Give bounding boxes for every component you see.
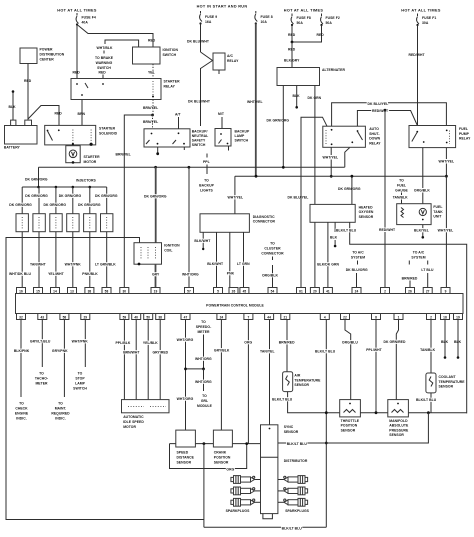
svg-text:BLK: BLK [441,340,449,344]
wire pin8 PPL/WHT to ground link [375,320,377,413]
pin 9 (top) [441,288,450,294]
svg-text:GRY/LT BLU: GRY/LT BLU [30,340,51,344]
node merge dot [291,41,294,44]
svg-text:9: 9 [445,289,447,293]
svg-text:BLK/LT BLU: BLK/LT BLU [272,398,293,402]
wire pin38 GRY/RED to AIS [159,320,161,400]
pin 58 (bottom) [60,314,69,320]
svg-text:BLK/WHT: BLK/WHT [194,239,211,243]
svg-text:8: 8 [375,315,377,319]
pin 50 (bottom) [144,314,153,320]
svg-text:38: 38 [88,289,92,293]
svg-text:44: 44 [267,315,271,319]
svg-text:DISTANCE: DISTANCE [177,456,195,460]
wire fuse 8 WHT/YEL thick down to bus2 [255,24,257,177]
node bus dots [203,442,206,445]
wire fuse F4 down to starter relay (RED) [76,25,78,79]
svg-text:38: 38 [158,315,162,319]
svg-text:58: 58 [105,289,109,293]
wire pin44 TAN/YEL to sync sensor [269,320,271,425]
power distribution center [20,48,37,64]
svg-text:THROTTLE: THROTTLE [341,419,360,423]
svg-text:26: 26 [232,289,236,293]
svg-text:BLK/WHT: BLK/WHT [207,262,224,266]
svg-text:DK BLU/WHT: DK BLU/WHT [187,40,210,44]
PCM powertrain control module [16,294,464,314]
wire TPS to MAP ground link [360,412,387,414]
fuse F2 50A [320,14,339,27]
svg-text:RED/WHT: RED/WHT [409,53,426,57]
pin 38 (bottom) [156,314,165,320]
injector feed wires [21,187,23,214]
svg-text:WHT/ORG: WHT/ORG [195,357,212,361]
svg-text:DK GRN/ORG: DK GRN/ORG [267,118,290,122]
wire fuse F1 RED/WHT down to fuel pump relay [417,25,419,126]
svg-text:43: 43 [40,315,44,319]
fuel pump relay interior [416,131,418,133]
pin 13 (top) [68,288,77,294]
svg-text:SENSOR: SENSOR [359,215,374,219]
wire diag BLK/WHT ground stub [202,232,204,248]
svg-text:19: 19 [456,315,460,319]
svg-text:DIAGNOSTIC: DIAGNOSTIC [253,215,275,219]
svg-text:15: 15 [36,289,40,293]
ASD relay interior [331,129,333,131]
svg-text:ORG/BLU: ORG/BLU [342,341,358,345]
starter solenoid [45,125,96,144]
svg-text:ALTERNATER: ALTERNATER [322,68,345,72]
svg-text:24: 24 [220,315,224,319]
pin 2 (top) [381,288,390,294]
svg-text:BLK/GRY: BLK/GRY [284,58,300,62]
svg-text:DK BLU/YEL: DK BLU/YEL [368,102,389,106]
svg-text:TO A/C: TO A/C [352,251,364,255]
svg-text:BLK/PNK: BLK/PNK [14,349,30,353]
svg-text:SENSOR: SENSOR [284,430,299,434]
pin 45 (top) [240,288,249,294]
svg-text:FUSE F2: FUSE F2 [326,16,340,20]
battery [5,126,38,145]
svg-text:GRY/PNK: GRY/PNK [52,349,68,353]
svg-text:TO: TO [58,402,63,406]
injector 4 [67,214,79,232]
pin 1 (bottom) [394,314,403,320]
svg-text:BLK/LT BLU: BLK/LT BLU [336,229,357,233]
svg-text:4: 4 [324,315,326,319]
svg-text:DK GRN/ORG: DK GRN/ORG [9,203,32,207]
pin 8 (bottom) [372,314,381,320]
pin 14 (top) [51,288,60,294]
svg-text:2: 2 [384,289,386,293]
svg-text:50A: 50A [326,21,333,25]
svg-text:BRN/RED: BRN/RED [279,341,295,345]
fuse F1 30A [416,14,436,27]
starter motor [66,146,80,163]
svg-text:RELAY: RELAY [227,59,239,63]
svg-text:30A: 30A [422,21,429,25]
svg-text:FUEL: FUEL [397,184,406,188]
svg-text:SYSTEM: SYSTEM [411,256,425,260]
svg-text:1: 1 [398,315,400,319]
pin 54 (top) [268,288,277,294]
wire diag BLK/WHT to PCM pin 5 [216,232,218,287]
solenoid contacts [47,130,49,132]
svg-text:DISTRIBUTOR: DISTRIBUTOR [284,459,308,463]
wire safety switch right stub [183,147,185,150]
svg-text:BLK/DK GRN: BLK/DK GRN [317,263,339,267]
pin 16 (top) [17,288,26,294]
wire pin43 GRY/LT BLU to tachometer [41,320,43,368]
svg-text:SWITCH: SWITCH [73,387,87,391]
svg-text:SYNC: SYNC [284,425,294,429]
svg-text:FUSE F8: FUSE F8 [297,16,311,20]
svg-text:CLUSTER: CLUSTER [264,247,281,251]
svg-text:PPL/WHT: PPL/WHT [366,348,382,352]
wire fuel pump relay WHT/YEL output to bus2 [445,148,447,177]
pin 41 (top) [323,288,332,294]
injector output wires to PCM pins [21,232,23,288]
svg-text:18: 18 [443,315,447,319]
svg-text:TO: TO [270,242,275,246]
wire distributor ground U [263,514,273,519]
svg-text:16A: 16A [205,20,212,24]
svg-text:10A: 10A [261,20,268,24]
svg-text:CONNECTOR: CONNECTOR [261,252,284,256]
wire BLK battery ground [12,92,14,120]
svg-text:MODULE: MODULE [197,404,213,408]
svg-text:NEUTRAL: NEUTRAL [192,134,209,138]
injector bus [22,186,107,188]
pin 44 (bottom) [265,314,274,320]
svg-text:TO BRAKE: TO BRAKE [95,56,114,60]
wire fuel gauge stub [401,200,403,204]
svg-text:A/T: A/T [175,113,181,117]
wire pin29 WHT/PNK to stop lamp switch [84,320,86,368]
auto shut-down relay [323,126,366,147]
node bus1 dots [154,166,157,169]
svg-text:27: 27 [426,289,430,293]
svg-text:OXYGEN: OXYGEN [359,210,374,214]
svg-text:AUTOMATIC: AUTOMATIC [123,415,144,419]
svg-text:STARTER: STARTER [99,127,116,131]
injector 3 [50,214,62,232]
wire fuse 9 down (DK BLU/WHT) [200,24,202,53]
starter relay contacts [76,83,78,85]
pin 29 (bottom) [81,314,90,320]
ORG sensor supply loop [170,444,247,469]
svg-text:BACKUP/: BACKUP/ [192,130,208,134]
wire pin2 TAN/BLK to coolant sensor [430,320,432,374]
svg-text:RELAY: RELAY [459,137,471,141]
svg-text:22: 22 [343,315,347,319]
crank position sensor [213,430,232,447]
wire DK BLU/YEL ASD to fuel pump relay [332,103,447,126]
svg-text:ABSOLUTE: ABSOLUTE [389,424,409,428]
wire pin40 BRN/WHT to AIS [135,320,137,400]
switch contacts [220,133,222,135]
wire fuse F2 down RED [292,25,322,42]
pin 43 (bottom) [38,314,47,320]
svg-text:54: 54 [271,289,275,293]
injector 1 [16,214,28,232]
svg-text:SWITCH: SWITCH [235,139,249,143]
wire sync sensor BLK/LT BLU to ground trunk [278,442,326,444]
svg-text:16: 16 [19,289,23,293]
wire HO2S BLK ground stub [334,222,336,232]
wire PPL down [206,165,208,175]
wire ignition switch to brake warning tap [105,40,139,47]
svg-text:47: 47 [184,315,188,319]
svg-text:WHT/PNK: WHT/PNK [72,340,89,344]
svg-text:TO: TO [201,320,206,324]
backup lamp switch [215,129,231,147]
svg-text:DK GRN/ORG: DK GRN/ORG [338,187,361,191]
svg-text:SPEEDO-: SPEEDO- [196,325,212,329]
pin 61 (top) [297,288,306,294]
svg-text:FUEL: FUEL [459,127,468,131]
svg-text:57: 57 [187,289,191,293]
svg-text:TO: TO [202,394,207,398]
svg-text:POWER: POWER [40,48,54,52]
svg-text:WHT/ORG: WHT/ORG [182,273,199,277]
coil interior winding dashes [141,247,156,259]
svg-text:IGNITION: IGNITION [163,48,179,52]
svg-text:PUMP: PUMP [459,132,470,136]
svg-text:DK GRN/ORG: DK GRN/ORG [44,203,67,207]
svg-text:LIGHTS: LIGHTS [200,189,213,193]
wire pin47 WHT/ORG to speed sensor [185,320,187,431]
svg-text:SENSOR: SENSOR [439,385,454,389]
pin 4 (bottom) [320,314,329,320]
svg-text:FUSE F1: FUSE F1 [422,16,436,20]
svg-text:DK GRN/ORG: DK GRN/ORG [144,194,167,198]
svg-text:19: 19 [154,289,158,293]
svg-text:FUEL: FUEL [433,205,442,209]
fuse F8 50A [291,14,311,27]
svg-text:MAINT.: MAINT. [55,407,67,411]
wire A/T stub [178,117,180,129]
node bus2 fuse8 dot [255,175,258,178]
svg-text:BACKUP: BACKUP [235,130,250,134]
svg-text:RED: RED [73,71,81,75]
svg-text:LT GRN/BLK: LT GRN/BLK [95,263,116,267]
svg-text:ORG: ORG [244,341,252,345]
svg-text:BRN: BRN [78,112,86,116]
wire diag PNK to PCM pin 26 [229,232,231,287]
injector 6 [101,214,113,232]
wire A/C relay output stub [218,70,220,74]
svg-text:BRN/RED: BRN/RED [402,276,418,280]
wire fuel pump relay ORG/BLK to fuel tank [422,148,424,204]
node bus2 right end dot [445,175,448,178]
svg-text:SAFETY: SAFETY [192,139,206,143]
svg-text:REQUIRED: REQUIRED [51,412,70,416]
svg-text:INDIC.: INDIC. [55,417,65,421]
wire BRN/YEL dashed to neutral safety switch [152,115,154,129]
wire safety switch stub with dot [157,147,159,153]
svg-text:METER: METER [197,330,210,334]
svg-text:WHT/YEL: WHT/YEL [247,100,263,104]
svg-text:BLK/LT BLU: BLK/LT BLU [315,349,336,353]
svg-text:BATTERY: BATTERY [4,146,21,150]
spark plugs left [231,476,255,507]
wire fuse F4 to ignition switch (RED) [77,25,153,48]
svg-text:INDIC.: INDIC. [16,417,26,421]
svg-text:SPEED: SPEED [177,451,189,455]
svg-text:PNK/BLK: PNK/BLK [82,272,98,276]
node WHT/YEL bus2 dot [330,175,333,178]
fuse 8 10A [255,11,273,25]
pin 24 (bottom) [217,314,226,320]
fuel tank unit [397,204,431,225]
svg-text:5: 5 [217,289,219,293]
pin 24 (top) [352,288,361,294]
svg-text:CONNECTOR: CONNECTOR [253,220,276,224]
svg-text:29: 29 [83,315,87,319]
injector interior dashes [22,217,107,229]
svg-text:SENSOR: SENSOR [294,383,309,387]
spark plugs right [284,476,308,484]
air temperature sensor [283,372,293,392]
pin 57 (top) [185,288,194,294]
wire pin18 BLK stub [444,320,446,357]
wire RED/WHT ASD to fuel pump relay [357,111,417,127]
fuse 9 16A [199,11,217,25]
node junction BRN/YEL [151,114,154,117]
wire pin58 GRY/PNK to maint indicator [63,320,65,398]
svg-text:HOT AT ALL TIMES: HOT AT ALL TIMES [57,9,97,13]
wire WHT/YEL bus2 to PCM pin 9 [445,176,447,287]
svg-text:WHT/DK BLU: WHT/DK BLU [9,272,31,276]
wire pin59 PPL/BLK to AIS [123,320,125,400]
pin 19 (bottom) [454,314,463,320]
svg-text:AUTO: AUTO [369,127,379,131]
svg-text:50A: 50A [297,21,304,25]
pin 21 (bottom) [281,314,290,320]
svg-text:RED: RED [99,71,107,75]
svg-text:LAMP: LAMP [235,134,245,138]
svg-text:20: 20 [313,289,317,293]
bus2 WHT/YEL horizontal [235,175,447,177]
wire RED stub into starter relay [102,75,104,79]
svg-text:SWITCH: SWITCH [163,53,177,57]
spark plug wires (left bank) [253,479,261,481]
svg-text:BACKUP: BACKUP [199,184,214,188]
svg-text:DOWN: DOWN [369,137,380,141]
svg-text:YEL/BLK: YEL/BLK [143,341,158,345]
svg-text:FUSE F4: FUSE F4 [82,16,96,20]
svg-text:STARTER: STARTER [84,155,101,159]
svg-text:WHT/ORG: WHT/ORG [195,380,212,384]
svg-text:DK BLU/YEL: DK BLU/YEL [288,196,309,200]
svg-text:DK GRN/ORG: DK GRN/ORG [25,178,48,182]
svg-text:DK BLU/ORG: DK BLU/ORG [346,268,368,272]
svg-text:GRY/RED: GRY/RED [153,351,169,355]
wire speedometer branch [203,335,205,369]
sensor ground bus [170,443,261,445]
svg-text:WHT/YEL: WHT/YEL [438,229,454,233]
fuse F4 40A [76,13,96,26]
svg-text:SWITCH: SWITCH [192,143,206,147]
svg-text:SYSTEM: SYSTEM [351,256,365,260]
svg-text:POSITION: POSITION [214,456,231,460]
ground loop wire left (to ignition coil) [6,238,204,520]
pin 30 (top) [120,288,129,294]
wire pin4 BLK/LT BLU sensor ground trunk [325,320,327,528]
svg-text:ORG: ORG [226,467,234,471]
wire starter relay BRN/YEL dashed down [152,100,154,116]
svg-text:GRY: GRY [152,273,160,277]
svg-text:BLK: BLK [9,105,17,109]
wire cluster ORG/BLK to PCM pin 54 [272,265,274,288]
svg-text:SPARKPLUGS: SPARKPLUGS [285,509,309,513]
svg-text:PPL: PPL [203,160,210,164]
wire PDC to battery (RED) [27,64,29,121]
pin 2 (bottom) [427,314,436,320]
automatic idle speed motor [122,400,170,413]
svg-text:BLK: BLK [293,94,301,98]
injector 2 [33,214,45,232]
svg-text:METER: METER [35,382,48,386]
svg-text:BRN/YEL: BRN/YEL [116,153,131,157]
svg-text:GAUGE: GAUGE [395,189,408,193]
svg-text:RED: RED [148,39,156,43]
wire M/T stub [221,117,223,129]
diagnostic connector [200,214,249,233]
svg-text:STOP: STOP [75,377,85,381]
wire HO2S BLK/LT BLU to right wrap [350,222,467,413]
svg-text:CHECK: CHECK [15,407,28,411]
svg-text:PRESSURE: PRESSURE [389,428,409,432]
svg-text:TAN/WHT: TAN/WHT [30,263,47,267]
svg-text:HOT IN START AND RUN: HOT IN START AND RUN [197,5,248,9]
distributor with sync sensor [261,425,278,514]
wire pin1 DK GRN/RED to MAP [396,320,398,400]
svg-text:BLK: BLK [454,340,462,344]
svg-text:RED/WHT: RED/WHT [372,109,389,113]
svg-text:41: 41 [326,289,330,293]
svg-text:HOT AT ALL TIMES: HOT AT ALL TIMES [284,9,324,13]
wire fuel tank BLK/YEL ground stub [422,225,424,237]
svg-text:FUSE 8: FUSE 8 [261,15,273,19]
wire LT BLU to PCM pin 27 [427,273,429,288]
wire CTS ground BLK/LT BLU [430,393,432,413]
wire bus2 left corner down to diagnostic connector [234,176,236,214]
svg-text:BLK/YEL: BLK/YEL [414,229,429,233]
manifold absolute pressure sensor [388,400,409,417]
svg-text:SPARKPLUGS: SPARKPLUGS [226,509,250,513]
wire fuse F8 down RED [291,25,293,42]
arrow tick [103,51,105,54]
svg-text:SENSOR: SENSOR [389,433,404,437]
svg-text:RED: RED [55,112,63,116]
svg-text:TACHO-: TACHO- [35,377,48,381]
svg-text:CRANK: CRANK [214,451,227,455]
pin 38 (top) [85,288,94,294]
svg-text:YEL/WHT: YEL/WHT [48,272,64,276]
svg-text:13: 13 [70,289,74,293]
ignition switch U1 [133,47,161,64]
svg-text:BLK/LT BLU: BLK/LT BLU [287,442,308,446]
wire ASD coil feed from pin61 net [301,117,327,287]
svg-text:MANIFOLD: MANIFOLD [389,419,408,423]
wire WHT/ORG down to GRL module note [203,369,205,391]
wire pin22 ORG/BLU to TPS [345,320,351,400]
pin 58 (top) [102,288,111,294]
svg-text:SENSOR: SENSOR [341,428,356,432]
svg-text:DK BLU/WHT: DK BLU/WHT [188,100,211,104]
svg-text:WHT/ORG: WHT/ORG [177,338,194,342]
